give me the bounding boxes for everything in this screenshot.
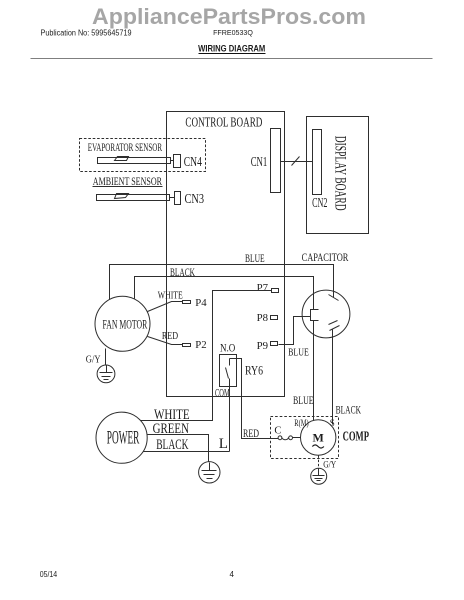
svg-text:P8: P8 [257,313,268,324]
svg-text:N.O: N.O [220,340,236,354]
svg-text:POWER: POWER [107,428,140,449]
bus slash mark [292,157,300,166]
svg-text:RED: RED [243,428,259,440]
wire capacitor to compressor S BLACK [332,330,334,425]
svg-text:CONTROL BOARD: CONTROL BOARD [185,115,262,130]
svg-text:L: L [219,436,228,452]
capacitor left terminal bracket [311,310,319,321]
wire overload to motor [293,437,301,439]
svg-text:EVAPORATOR SENSOR: EVAPORATOR SENSOR [88,142,162,154]
evaporator sensor element [98,158,171,164]
svg-text:FFRE0533Q: FFRE0533Q [213,28,253,37]
svg-text:CN2: CN2 [312,196,327,211]
wire ambient sensor to CN3 [170,197,175,199]
svg-text:C: C [274,425,281,436]
connector CN3 [175,192,181,205]
svg-text:G/Y: G/Y [323,460,336,470]
compressor dashed enclosure [271,417,339,459]
svg-text:AppliancePartsPros.com: AppliancePartsPros.com [92,4,366,29]
svg-text:RY6: RY6 [245,363,263,378]
wire fan motor to ground [105,349,107,365]
wire P9 to capacitor BLUE [279,317,311,345]
capacitor top terminal tick [329,295,339,301]
connector CN1 [271,129,281,193]
wire BLACK fan to capacitor left [135,277,314,310]
ground compressor [311,468,327,484]
power supply plug body [96,412,147,463]
wire WHITE fan to P4 [148,302,183,312]
svg-text:WIRING DIAGRAM: WIRING DIAGRAM [198,44,265,55]
wire evaporator sensor to CN4 [171,160,174,162]
capacitor C1 body [302,290,350,338]
svg-text:Publication No: 5995645719: Publication No: 5995645719 [41,28,132,37]
terminal P2 [183,344,191,347]
wire relay NO to compressor RED [230,359,279,439]
ground power cord [199,462,220,483]
svg-text:BLACK: BLACK [156,437,189,453]
svg-text:DISPLAY BOARD: DISPLAY BOARD [332,136,349,211]
svg-text:CN3: CN3 [185,192,205,207]
capacitor bottom-right terminal marks [329,321,338,325]
wire relay COM to L [229,379,231,452]
svg-text:BLACK: BLACK [336,403,362,417]
svg-text:CN1: CN1 [251,155,268,170]
svg-text:P9: P9 [257,341,268,352]
connector CN2 [313,130,322,195]
evaporator sensor dashed box [80,139,206,172]
overload protector [278,436,282,440]
svg-text:R(M): R(M) [294,418,308,428]
svg-text:BLACK: BLACK [170,265,195,279]
compressor motor body [301,420,336,455]
fan motor B1 body [95,296,150,351]
svg-text:P4: P4 [195,298,207,309]
svg-text:G/Y: G/Y [86,354,101,366]
wire GREEN power to ground [148,435,209,462]
wire capacitor to compressor R BLUE [313,321,315,421]
svg-text:FAN MOTOR: FAN MOTOR [103,317,148,331]
terminal P8 [271,316,278,320]
terminal P4 [183,301,191,304]
svg-text:BLUE: BLUE [245,251,265,265]
relay blade [226,368,229,379]
svg-text:05/14: 05/14 [40,570,58,579]
wire RED fan to P2 [148,337,183,345]
svg-text:CN4: CN4 [184,155,202,170]
svg-text:COM: COM [215,386,230,400]
connector CN4 [174,155,181,168]
control board U1 outline [167,112,285,397]
svg-text:M: M [313,431,324,445]
svg-text:P2: P2 [195,340,206,351]
svg-text:RED: RED [162,331,179,342]
relay RY6 box [220,355,237,387]
top rule [31,58,433,60]
svg-text:WHITE: WHITE [158,291,183,302]
terminal P7 [272,289,279,293]
ambient sensor element [97,195,170,201]
svg-text:P7: P7 [257,283,268,294]
ground fan motor [97,365,115,383]
relay contact stem [229,359,231,366]
svg-text:4: 4 [230,570,235,579]
wire BLUE fan to capacitor top [110,265,334,300]
display board outline [307,117,369,234]
svg-text:COMP: COMP [343,430,370,445]
svg-text:CAPACITOR: CAPACITOR [302,250,349,264]
wire compressor to ground dashed [318,456,320,469]
terminal P9 [271,342,278,346]
svg-text:S: S [330,418,335,428]
svg-text:BLUE: BLUE [288,346,309,358]
svg-text:AMBIENT SENSOR: AMBIENT SENSOR [93,174,162,188]
wire BLACK power to L [144,451,230,453]
svg-text:BLUE: BLUE [293,393,314,407]
wire P7 to power white [141,291,272,421]
wire CN1 to CN2 [281,161,313,163]
